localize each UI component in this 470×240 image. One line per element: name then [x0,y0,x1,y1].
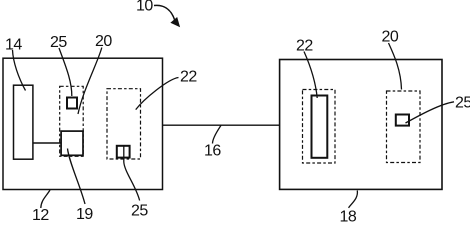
svg-text:22: 22 [180,69,197,86]
dashed box 20 (right) [387,91,421,163]
svg-text:10: 10 [136,0,153,15]
connecting line 16 [163,124,280,126]
leader 19 [68,149,86,205]
svg-text:14: 14 [5,37,22,54]
svg-text:20: 20 [95,33,112,50]
svg-text:25: 25 [455,95,470,112]
wire from 14 to 19 [33,142,61,144]
tall rect inside box 22 (right) [312,96,328,158]
svg-text:12: 12 [32,207,49,222]
leader 16 [213,125,222,143]
dashed box 20 (left) [60,86,83,156]
square 25 (right) [396,115,409,126]
leader 25 (top left) [59,48,72,96]
leader 20 (left) [78,48,102,115]
leader 25 (right, ends inside square) [406,102,455,123]
leader 14 [13,50,26,91]
square 25 (in box 22) [117,146,130,158]
svg-text:25: 25 [131,203,148,220]
dashed box 22 (right) [303,90,336,164]
leader 12 [41,190,50,208]
square 19 [61,131,83,155]
dashed box 22 (left) [107,89,141,159]
svg-text:20: 20 [382,29,399,46]
outer box 12 (left device) [3,58,163,189]
svg-text:18: 18 [340,209,357,223]
outer box 18 (right device) [280,60,442,190]
svg-text:19: 19 [76,206,93,222]
arrow leader 10 [154,5,179,26]
svg-text:16: 16 [204,143,221,160]
leader 20 (right) [389,43,402,90]
rect 14 [14,85,33,159]
leader 18 [349,191,358,208]
leader 22 (left) [136,78,179,110]
leader 22 (right) [304,52,317,99]
square 25 (in box 20) [67,98,77,109]
leader 25 (bottom, passes through square) [124,145,140,200]
